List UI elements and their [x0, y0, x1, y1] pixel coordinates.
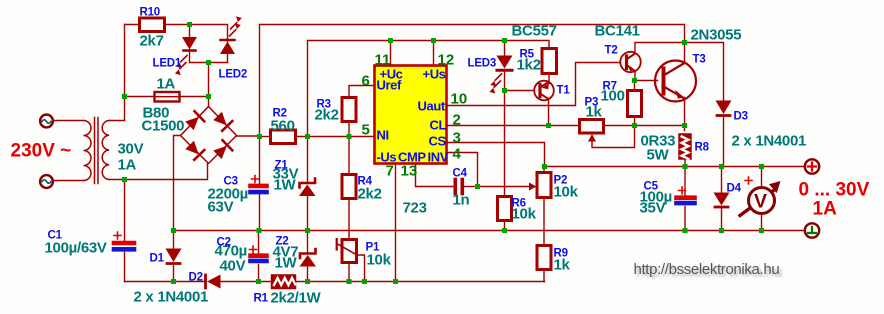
- svg-text:T1: T1: [557, 85, 571, 97]
- svg-text:1k2: 1k2: [517, 57, 541, 74]
- pin 11 +Uc wire: [390, 41, 392, 66]
- node 0V D4: [719, 228, 724, 233]
- svg-text:V: V: [754, 191, 767, 213]
- svg-text:4: 4: [453, 146, 462, 163]
- node LED3 top: [502, 38, 507, 43]
- wire AC top to primary: [54, 120, 84, 122]
- node CL R7: [632, 123, 637, 128]
- pin 4 INV wire: [447, 153, 478, 187]
- svg-text:1n: 1n: [453, 192, 470, 209]
- node -Us C2: [256, 279, 261, 284]
- zener Z2: [307, 231, 309, 253]
- plus mark C1: [114, 232, 121, 239]
- potentiometer P2: [529, 183, 537, 191]
- AC source terminal top: [40, 115, 53, 128]
- svg-text:2k2: 2k2: [358, 186, 382, 203]
- svg-text:http://bsselektronika.hu: http://bsselektronika.hu: [634, 261, 780, 278]
- svg-text:7: 7: [386, 163, 394, 180]
- svg-text:D3: D3: [734, 111, 748, 123]
- bridge diode top-right: [213, 111, 233, 131]
- wire R10 to LED node: [165, 25, 228, 39]
- node +out R8 C5: [683, 164, 688, 169]
- output terminal plus: [805, 159, 819, 173]
- svg-text:LED1: LED1: [153, 58, 182, 70]
- node CS P2: [542, 164, 547, 169]
- svg-text:T3: T3: [693, 54, 706, 66]
- svg-text:2 x 1N4001: 2 x 1N4001: [134, 289, 209, 306]
- resistor R1 power 2k2/1W: [272, 275, 296, 289]
- resistor R8 power 0R33 5W: [679, 134, 691, 159]
- node LED cathodes: [206, 60, 211, 65]
- svg-text:R10: R10: [140, 7, 161, 19]
- svg-text:100: 100: [601, 88, 625, 105]
- svg-text:40V: 40V: [220, 258, 246, 275]
- svg-text:2N3055: 2N3055: [691, 27, 742, 44]
- transformer TR1 secondary winding: [102, 121, 109, 180]
- svg-text:Uref: Uref: [377, 78, 402, 93]
- svg-text:6: 6: [362, 73, 370, 90]
- watermark: [634, 261, 782, 281]
- +output rail: [545, 166, 805, 168]
- svg-text:1k: 1k: [554, 257, 571, 274]
- diode D1: [173, 231, 175, 249]
- wire bridge minus to 0V rail: [174, 136, 181, 231]
- node -Us Z2: [305, 279, 310, 284]
- wire AC bottom to primary: [54, 180, 84, 182]
- node -Us P1 wiper: [362, 279, 367, 284]
- wire Vcc riser x307: [308, 41, 550, 137]
- node CL T1: [546, 123, 551, 128]
- svg-text:D4: D4: [727, 183, 742, 195]
- bridge diode bottom-right: [213, 140, 233, 160]
- svg-text:2k2: 2k2: [315, 107, 339, 124]
- svg-text:Uaut: Uaut: [418, 99, 446, 114]
- node pin12: [431, 38, 436, 43]
- svg-text:LED2: LED2: [219, 69, 248, 81]
- AC source terminal bottom: [40, 175, 53, 188]
- transistor T1 BC557: [548, 74, 550, 84]
- plus mark C5: [679, 187, 686, 194]
- svg-text:NI: NI: [377, 128, 389, 143]
- svg-text:2k7: 2k7: [140, 33, 164, 50]
- LED LED1: [189, 25, 191, 37]
- wire -Us rail right: [296, 281, 545, 283]
- node pin11: [388, 38, 393, 43]
- pin 12 +Us wire: [433, 41, 435, 66]
- node fuse-right: [206, 94, 211, 99]
- plus mark C3: [252, 176, 259, 183]
- wire T3 base: [635, 80, 658, 82]
- svg-text:10k: 10k: [367, 252, 392, 269]
- potentiometer P1: [342, 240, 357, 263]
- svg-text:1A: 1A: [157, 76, 176, 93]
- svg-text:5: 5: [362, 122, 370, 139]
- node INV C4: [475, 184, 480, 189]
- svg-text:723: 723: [403, 200, 427, 217]
- node R8 top: [682, 123, 687, 128]
- svg-text:35V: 35V: [640, 200, 666, 217]
- svg-text:100µ/63V: 100µ/63V: [45, 240, 107, 257]
- node C1 top: [122, 177, 127, 182]
- node raw+ C3: [257, 134, 262, 139]
- svg-text:2k2/1W: 2k2/1W: [271, 290, 322, 307]
- resistor R9: [537, 246, 551, 270]
- wire T1 base: [505, 90, 535, 92]
- transistor T2 BC141: [620, 52, 640, 72]
- LED LED2: [227, 39, 229, 42]
- svg-text:2 x 1N4001: 2 x 1N4001: [732, 133, 807, 150]
- node 0V C5: [683, 228, 688, 233]
- node NI R3 R4: [347, 134, 352, 139]
- svg-text:C4: C4: [453, 168, 468, 180]
- resistor R3: [342, 98, 356, 122]
- svg-text:CMP: CMP: [398, 150, 426, 165]
- svg-text:1W: 1W: [275, 255, 298, 272]
- node T1 base: [502, 88, 507, 93]
- node R10-LED1: [187, 22, 192, 27]
- node 0V voltmeter: [759, 228, 764, 233]
- diode D2: [204, 275, 207, 288]
- svg-text:R8: R8: [695, 142, 710, 154]
- svg-text:560: 560: [271, 118, 295, 135]
- diode D3: [685, 43, 724, 101]
- svg-text:1k: 1k: [586, 104, 603, 121]
- svg-text:CS: CS: [429, 134, 447, 149]
- svg-text:13: 13: [401, 163, 418, 180]
- svg-text:T2: T2: [605, 45, 618, 57]
- capacitor C5: [684, 167, 686, 197]
- svg-text:230V ~: 230V ~: [11, 141, 72, 162]
- svg-text:BC141: BC141: [595, 23, 640, 40]
- node 0V R6: [502, 228, 507, 233]
- node +out D3 D4: [719, 164, 724, 169]
- op-amp regulator U1 723 body: [375, 66, 447, 164]
- svg-text:1A: 1A: [118, 157, 137, 174]
- diode D4: [721, 167, 723, 193]
- svg-text:5W: 5W: [647, 147, 670, 164]
- node T2 emitter: [632, 78, 637, 83]
- node fuse-left: [122, 94, 127, 99]
- resistor R2: [260, 136, 271, 138]
- pin 13 CMP wire: [416, 164, 454, 187]
- wire INV node to P2 wiper: [478, 186, 530, 188]
- zener Z1: [307, 137, 309, 182]
- pin 2 CL wire: [447, 125, 580, 127]
- svg-text:INV: INV: [428, 150, 449, 165]
- svg-text:30V: 30V: [118, 141, 144, 158]
- svg-text:LED3: LED3: [468, 58, 497, 70]
- wire raw+ node up and top rail: [260, 25, 685, 137]
- wire bridge plus to R2 row: [237, 135, 260, 137]
- output terminal ground: [805, 223, 819, 237]
- svg-text:10k: 10k: [512, 206, 537, 223]
- fuse F1 1A: [155, 92, 180, 102]
- node -Us P1 bottom: [347, 279, 352, 284]
- svg-text:0 ... 30V: 0 ... 30V: [799, 180, 870, 201]
- pin 7 -Us wire: [395, 164, 397, 282]
- node Vcc Z1: [305, 134, 310, 139]
- transformer TR1 primary winding: [84, 121, 92, 181]
- wire -Us rail left: [125, 281, 205, 283]
- voltmeter V1: [761, 167, 763, 231]
- wire fuse to bridge top: [180, 97, 209, 107]
- potentiometer P3: [580, 120, 604, 134]
- svg-text:+Us: +Us: [423, 67, 446, 82]
- node 0V C3 C2: [257, 228, 262, 233]
- 0V rail: [174, 230, 805, 232]
- wire secondary top to fuse node: [109, 25, 125, 121]
- node +out voltmeter: [759, 164, 764, 169]
- bridge diode top-left: [185, 111, 205, 131]
- pin 10 Uaut wire to T2 base: [447, 63, 621, 106]
- node 0V bridge: [171, 228, 176, 233]
- svg-text:3: 3: [453, 130, 461, 147]
- svg-text:R1: R1: [254, 293, 269, 305]
- resistor R4: [348, 137, 350, 175]
- capacitor C4: [453, 180, 457, 194]
- svg-text:63V: 63V: [208, 199, 234, 216]
- svg-text:D2: D2: [189, 272, 203, 284]
- node T3 collector: [682, 40, 687, 45]
- transistor T3 2N3055: [655, 61, 696, 102]
- node -Us pin7: [393, 279, 398, 284]
- bridge rectifier B80 C1500 diamond: [181, 107, 237, 164]
- svg-text:10k: 10k: [554, 184, 579, 201]
- svg-text:D1: D1: [150, 253, 165, 265]
- svg-text:BC557: BC557: [512, 23, 557, 40]
- plus mark voltmeter: [745, 177, 752, 184]
- svg-text:CL: CL: [430, 118, 447, 133]
- resistor R10: [140, 18, 165, 32]
- wire top rail left to R10: [125, 24, 140, 26]
- resistor R6: [498, 197, 512, 221]
- svg-text:-Us: -Us: [377, 150, 397, 165]
- wire Uref pin6 to R3: [349, 86, 375, 98]
- wire secondary bottom to bridge AC: [109, 164, 208, 180]
- transformer core: [95, 118, 99, 184]
- wire R3 to NI row: [348, 122, 350, 137]
- wire R4 to P1: [348, 199, 350, 240]
- wire LED1/LED2 cathodes to bridge: [190, 63, 228, 97]
- capacitor C3: [259, 137, 261, 184]
- wire LED3 cathode down to R6: [504, 91, 506, 197]
- plus mark C2: [250, 246, 257, 253]
- svg-text:2: 2: [453, 112, 461, 129]
- svg-text:10: 10: [451, 91, 468, 108]
- pin 3 CS wire: [447, 143, 545, 167]
- svg-text:1W: 1W: [274, 177, 297, 194]
- node 0V Z1 Z2: [305, 228, 310, 233]
- LED LED3: [504, 41, 506, 56]
- resistor R7: [628, 91, 642, 117]
- node -Us D1: [171, 279, 176, 284]
- capacitor C1: [124, 180, 126, 241]
- svg-text:1A: 1A: [813, 199, 838, 220]
- svg-text:C1500: C1500: [142, 118, 185, 135]
- resistor R5: [542, 49, 557, 74]
- wire node to fuse: [125, 96, 155, 98]
- capacitor C2: [258, 231, 260, 254]
- bridge diode bottom-left: [185, 140, 205, 160]
